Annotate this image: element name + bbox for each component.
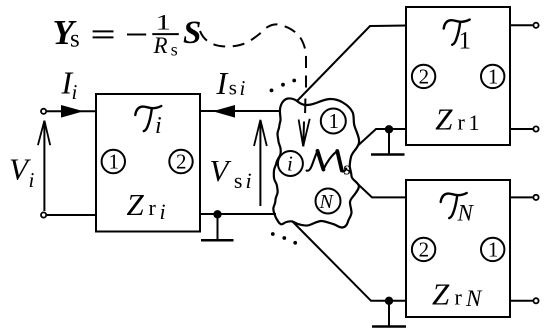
- wire bottom from Ti to blob: [200, 213, 276, 215]
- svg-text:R: R: [153, 33, 168, 58]
- wire blob to T1 top: [297, 26, 406, 102]
- label Ti: [135, 106, 161, 139]
- port circle 2 of Ti: [169, 150, 192, 174]
- node circle N in blob: [316, 189, 341, 214]
- scattering blob Ms: [273, 98, 359, 227]
- port circle 2 of TN: [412, 237, 435, 261]
- wire input bottom: [47, 214, 96, 216]
- svg-text:i: i: [29, 168, 35, 192]
- wire blob to T1 bottom: [358, 129, 406, 146]
- terminal wires T1 right: [510, 25, 533, 129]
- svg-text:1: 1: [469, 110, 480, 135]
- svg-text:Z: Z: [127, 187, 145, 222]
- svg-text:Z: Z: [432, 277, 450, 312]
- svg-text:N: N: [457, 201, 475, 226]
- two-port box T1: [406, 7, 510, 145]
- label Vi: [9, 151, 35, 192]
- ground under TN wire: [372, 301, 406, 327]
- current arrow Isi: [213, 105, 235, 118]
- terminal top-left: [41, 109, 46, 114]
- svg-text:1: 1: [459, 28, 472, 55]
- svg-text:2: 2: [419, 237, 430, 261]
- svg-text:i: i: [72, 80, 78, 104]
- ground under Ti: [201, 214, 234, 240]
- svg-text:1: 1: [156, 10, 171, 35]
- port circle 2 of T1: [412, 64, 435, 88]
- svg-text:i: i: [287, 152, 293, 176]
- label Ms: [307, 151, 351, 180]
- node circle i in blob: [278, 151, 303, 176]
- terminal T1 upper right: [533, 23, 538, 28]
- label ZrN: [432, 277, 483, 312]
- svg-text:I: I: [216, 65, 229, 101]
- two-port box TN: [406, 180, 510, 317]
- junction dot TN ground: [385, 297, 393, 305]
- svg-text:s: s: [234, 168, 243, 193]
- svg-text:r: r: [458, 110, 466, 135]
- dashed leader from equation to blob: [200, 24, 306, 89]
- junction dot T1 ground: [385, 125, 393, 133]
- svg-text:N: N: [465, 286, 483, 311]
- terminal bottom-left: [41, 212, 46, 217]
- wire Isi from Ti to blob: [200, 110, 280, 112]
- current arrow Ii: [61, 105, 84, 118]
- svg-text:N: N: [319, 191, 335, 213]
- port circle 1 of Ti: [102, 150, 125, 174]
- incident wave arrow in blob: [299, 119, 310, 147]
- svg-text:i: i: [246, 168, 252, 193]
- svg-text:r: r: [455, 285, 463, 310]
- terminal wires TN right: [510, 197, 533, 300]
- label Vsi: [210, 153, 252, 193]
- node circle 1 in blob: [321, 109, 346, 134]
- svg-text:V: V: [210, 153, 232, 188]
- dash tick crossing blob boundary: [304, 99, 306, 114]
- port circle 1 of TN: [481, 237, 504, 261]
- label T1: [444, 20, 471, 55]
- wire input top: [47, 110, 96, 112]
- svg-text:s: s: [70, 26, 80, 53]
- ground under T1 wire: [371, 129, 405, 154]
- svg-text:Z: Z: [435, 101, 453, 136]
- terminal TN lower right: [533, 298, 538, 303]
- terminal T1 lower right: [533, 126, 538, 131]
- ellipsis dots lower: [271, 232, 297, 245]
- junction dot at Ti ground: [213, 210, 221, 218]
- wire blob to TN bottom: [293, 222, 407, 301]
- label Isi: [216, 65, 246, 101]
- two-port box Ti: [96, 94, 200, 232]
- svg-text:s: s: [229, 75, 237, 99]
- wire blob to TN top: [358, 185, 406, 198]
- label Zr1: [435, 101, 479, 136]
- terminal TN upper right: [533, 195, 538, 200]
- label Ii: [61, 65, 78, 105]
- svg-text:1: 1: [329, 109, 340, 133]
- svg-text:i: i: [155, 113, 162, 139]
- label TN: [441, 193, 475, 226]
- svg-text:s: s: [343, 159, 350, 180]
- ellipsis dots upper: [270, 79, 297, 93]
- svg-text:r: r: [149, 195, 157, 220]
- svg-text:s: s: [171, 40, 178, 60]
- svg-text:1: 1: [488, 64, 499, 88]
- svg-text:2: 2: [176, 150, 187, 174]
- label Zri: [127, 187, 166, 224]
- svg-text:1: 1: [488, 237, 499, 261]
- equation Ys = -1/Rs S: [53, 10, 202, 60]
- svg-text:2: 2: [419, 64, 430, 88]
- voltage arrow Vsi: [254, 120, 267, 206]
- port circle 1 of T1: [481, 64, 504, 88]
- svg-text:1: 1: [109, 150, 120, 174]
- voltage arrow Vi: [38, 121, 50, 211]
- svg-text:S: S: [183, 15, 201, 51]
- svg-text:i: i: [240, 76, 246, 100]
- svg-text:i: i: [160, 199, 166, 224]
